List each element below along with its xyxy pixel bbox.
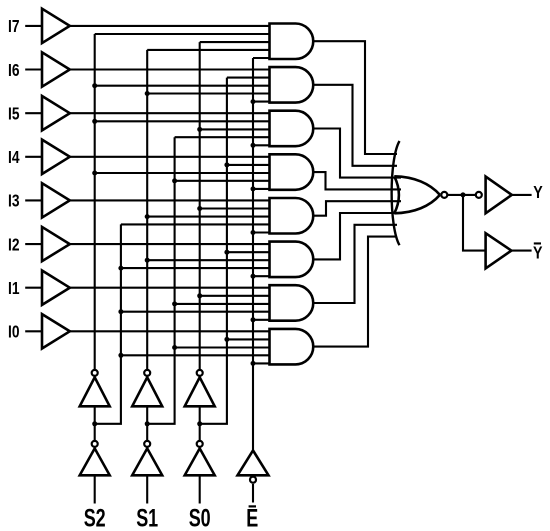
wire G1 output to OR gate U1: [313, 41, 397, 154]
svg-text:I7: I7: [8, 16, 20, 36]
svg-text:I6: I6: [8, 60, 20, 80]
inverter U3B (S1 second stage) output bubble: [144, 370, 150, 376]
OR gate U1 input wing arc: [392, 141, 400, 245]
wire EN tap to gate G6: [253, 275, 270, 277]
wire S2-bar node: [94, 406, 96, 440]
wire S1-bar node: [146, 406, 148, 440]
wire S1-bar tap to gate G8: [175, 346, 270, 348]
svg-text:I4: I4: [8, 147, 20, 167]
buffer A2 (I2 input buffer): [42, 227, 70, 261]
wire G4 output to OR gate U1: [313, 172, 401, 189]
wire S0 tap to gate G7: [200, 295, 270, 297]
wire I4 input: [25, 156, 42, 158]
wire S2-bar tap to gate G6: [121, 267, 270, 269]
wire G5 output to OR gate U1: [313, 201, 401, 216]
buffer A3 (I3 input buffer): [42, 183, 70, 217]
junction S1-bar/G8: [172, 345, 177, 350]
buffer A5 (I5 input buffer): [42, 96, 70, 130]
svg-text:Y: Y: [533, 182, 543, 202]
wire S1 input: [146, 475, 148, 503]
inverter U3A triangle: [132, 448, 162, 475]
wire I6 input: [25, 68, 42, 70]
junction S2/G3: [92, 119, 97, 124]
svg-text:I5: I5: [8, 104, 20, 124]
wire S0-bar tap to gate G8: [227, 338, 270, 340]
junction EN/G8: [251, 361, 256, 366]
inverting buffer A9 (Y output): [486, 177, 512, 214]
wire I1 input: [25, 287, 42, 289]
AND gate G5: [270, 198, 314, 234]
OR gate U1 body: [394, 176, 440, 213]
inverter U4B triangle: [185, 377, 215, 406]
junction S0-bar/G6: [224, 250, 229, 255]
wire S2 tap to gate G1: [95, 33, 270, 35]
inverter U4A triangle: [185, 448, 215, 475]
inverter U2B (S2 second stage) output bubble: [92, 370, 98, 376]
wire S1 tap to gate G2: [147, 92, 269, 94]
wire S2 input: [94, 475, 96, 503]
wire G8 output to OR gate U1: [313, 237, 397, 347]
wire S0-bar tap to gate G6: [227, 251, 270, 253]
inverter U5 input bubble: [250, 477, 256, 483]
junction S0-bar branch: [197, 421, 202, 426]
AND gate G6: [270, 242, 314, 278]
junction EN/G5: [251, 230, 256, 235]
AND gate G8: [270, 329, 314, 365]
svg-text:I0: I0: [8, 322, 20, 342]
buffer A7 (I7 input buffer): [42, 9, 70, 43]
wire EN tap to gate G7: [253, 319, 270, 321]
wire EN tap to gate G3: [253, 144, 270, 146]
wire I7 buffer output to AND gate G1 input 1: [70, 25, 270, 27]
AND gate G2: [270, 67, 314, 103]
wire EN tap to gate G1: [253, 57, 270, 59]
junction S1-bar/G4: [172, 178, 177, 183]
wire I0 buffer output to AND gate G8 input 1: [70, 330, 270, 332]
wire S0-bar node: [199, 406, 201, 440]
inverter U2A (S2 first stage) output bubble: [92, 441, 98, 447]
svg-text:S2: S2: [84, 505, 106, 531]
wire S1-bar tap to gate G3: [175, 136, 270, 138]
junction EN/G7: [251, 317, 256, 322]
buffer A1 (I1 input buffer): [42, 271, 70, 305]
junction S2-bar branch: [92, 421, 97, 426]
net S0 (true) vertical wire: [199, 42, 201, 369]
wire G2 output to OR gate U1: [313, 85, 397, 166]
wire S0 tap to gate G3: [200, 128, 270, 130]
wire G7 output to OR gate U1: [313, 225, 397, 303]
wire G3 output to OR gate U1: [313, 129, 401, 178]
wire S2 tap to gate G4: [95, 172, 270, 174]
wire I2 input: [25, 243, 42, 245]
wire node W to buffer A10: [463, 195, 486, 251]
wire S2 tap to gate G3: [95, 120, 270, 122]
junction S1-bar/G7: [172, 301, 177, 306]
wire I7 input: [25, 25, 42, 27]
junction S2/G4: [92, 171, 97, 176]
junction S1/G6: [145, 258, 150, 263]
svg-text:S0: S0: [189, 505, 211, 531]
wire I3 buffer output to AND gate G5 input 1: [70, 199, 270, 201]
junction S0/G5: [197, 206, 202, 211]
junction EN/G6: [251, 274, 256, 279]
wire E-bar input: [252, 484, 254, 503]
junction S0/G7: [197, 293, 202, 298]
wire S1-bar tap to gate G4: [175, 180, 270, 182]
wire S0-bar tap to gate G2: [227, 77, 270, 79]
buffer A6 (I6 input buffer): [42, 52, 70, 86]
AND gate G1: [270, 24, 314, 60]
wire S1 tap to gate G1: [147, 49, 269, 51]
svg-text:Y: Y: [533, 243, 543, 263]
inverter U3A (S1 first stage) output bubble: [144, 441, 150, 447]
wire S0 tap to gate G5: [200, 207, 270, 209]
buffer A4 (I4 input buffer): [42, 140, 70, 174]
inverter U4A (S0 first stage) output bubble: [197, 441, 203, 447]
junction S1-bar branch: [145, 421, 150, 426]
wire I2 buffer output to AND gate G6 input 1: [70, 243, 270, 245]
inverter U2B triangle: [80, 377, 110, 406]
buffer A10 (Y-bar output): [486, 233, 512, 268]
wire EN tap to gate G5: [253, 231, 270, 233]
junction S0/G3: [197, 127, 202, 132]
wire EN tap to gate G2: [253, 101, 270, 103]
net S1 (true) vertical wire: [146, 50, 148, 369]
wire S1 tap to gate G5: [147, 216, 269, 218]
wire S0 input: [199, 475, 201, 503]
junction S2-bar/G6: [118, 266, 123, 271]
junction S2-bar/G7: [118, 309, 123, 314]
junction S1/G2: [145, 91, 150, 96]
wire EN tap to gate G8: [253, 362, 270, 364]
wire I5 input: [25, 112, 42, 114]
wire S0-bar tap to gate G4: [227, 164, 270, 166]
label Y-bar: [534, 242, 541, 244]
wire EN tap to gate G4: [253, 188, 270, 190]
junction node W: [461, 192, 466, 197]
wire S2 tap to gate G2: [95, 85, 270, 87]
junction S0-bar/G8: [224, 337, 229, 342]
wire S2-bar tap to gate G8: [121, 354, 270, 356]
label E-bar: [249, 505, 256, 507]
junction EN/G2: [251, 99, 256, 104]
wire I4 buffer output to AND gate G4 input 1: [70, 156, 270, 158]
inverter U4B (S0 second stage) output bubble: [197, 370, 203, 376]
wire I6 buffer output to AND gate G2 input 1: [70, 68, 270, 70]
inverter U3B triangle: [132, 377, 162, 406]
junction S0-bar/G4: [224, 162, 229, 167]
net S2 (true) vertical wire: [94, 34, 96, 369]
svg-text:S1: S1: [136, 505, 158, 531]
junction EN/G4: [251, 186, 256, 191]
wire S2-bar tap to gate G5: [121, 223, 270, 225]
wire S1-bar tap to gate G7: [175, 303, 270, 305]
wire I0 input: [25, 330, 42, 332]
wire Y output: [512, 194, 532, 196]
OR gate U1 output bubble (NOR): [441, 192, 447, 198]
junction S2-bar/G8: [118, 353, 123, 358]
net S0-bar (complement) vertical wire: [200, 78, 227, 424]
wire Y-bar output: [511, 250, 531, 252]
wire S0 tap to gate G1: [200, 41, 270, 43]
svg-text:I3: I3: [8, 191, 20, 211]
wire S1 tap to gate G6: [147, 259, 269, 261]
buffer A9 input bubble: [476, 192, 482, 198]
inverter U5 (enable) triangle: [238, 450, 269, 475]
AND gate G4: [270, 154, 314, 190]
AND gate G7: [270, 285, 314, 321]
wire W (NOR output node): [448, 194, 476, 196]
wire I5 buffer output to AND gate G3 input 1: [70, 112, 270, 114]
net S2-bar (complement) vertical wire: [95, 224, 121, 423]
svg-text:E: E: [246, 505, 258, 531]
wire I3 input: [25, 199, 42, 201]
svg-text:I1: I1: [8, 278, 20, 298]
junction S1/G5: [145, 214, 150, 219]
inverter U2A triangle: [80, 448, 110, 475]
buffer A0 (I0 input buffer): [42, 314, 70, 348]
svg-text:I2: I2: [8, 234, 20, 254]
net S1-bar (complement) vertical wire: [147, 137, 174, 424]
wire G6 output to OR gate U1: [313, 213, 401, 259]
junction S2/G2: [92, 83, 97, 88]
net EN (enable) vertical wire: [252, 58, 254, 451]
wire S2-bar tap to gate G7: [121, 311, 270, 313]
wire I1 buffer output to AND gate G7 input 1: [70, 287, 270, 289]
AND gate G3: [270, 111, 314, 147]
junction EN/G3: [251, 143, 256, 148]
